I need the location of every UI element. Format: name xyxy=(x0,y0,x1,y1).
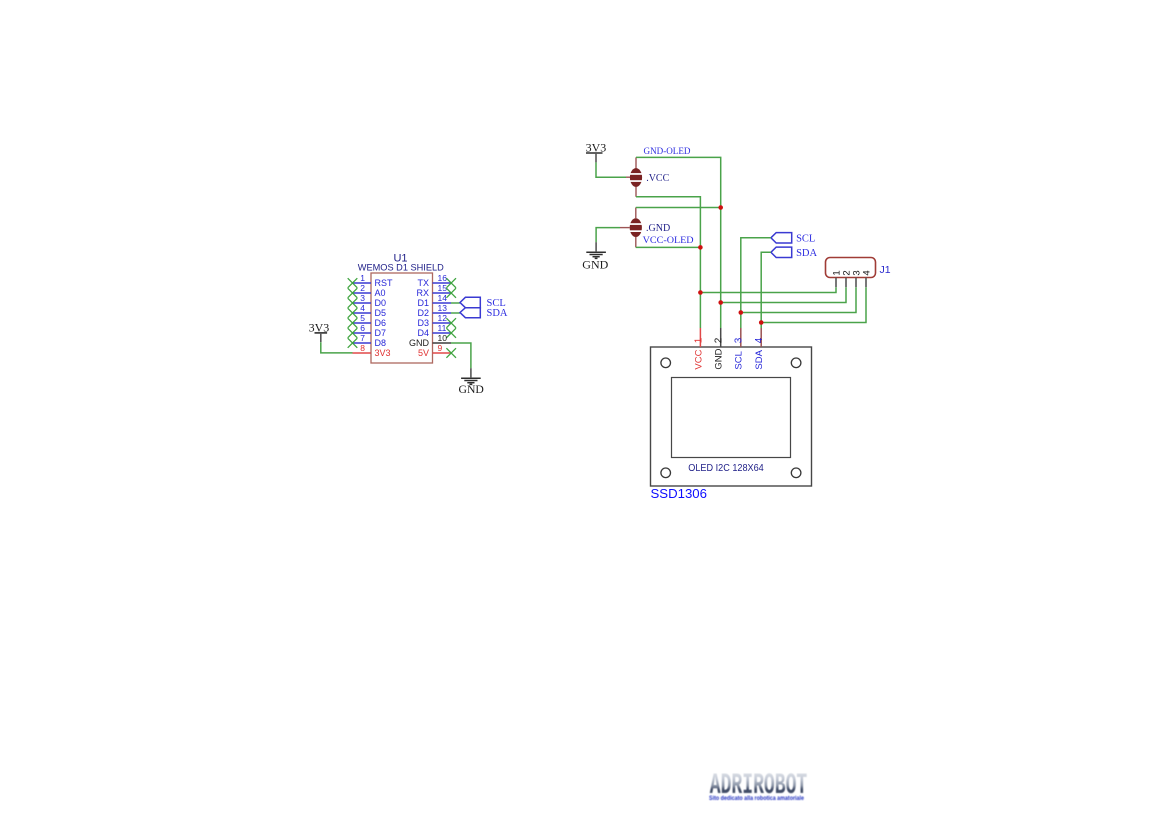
SSD1306 screen area xyxy=(672,378,791,458)
svg-text:D1: D1 xyxy=(417,298,429,308)
svg-text:5: 5 xyxy=(360,313,365,323)
wire FB1 bottom to VCC column xyxy=(636,197,700,328)
U1 pin 16 TX xyxy=(417,273,456,288)
svg-text:D4: D4 xyxy=(417,328,429,338)
svg-text:D3: D3 xyxy=(417,318,429,328)
svg-text:J1: J1 xyxy=(880,264,891,276)
U1 pin 8 3V3 xyxy=(353,343,391,358)
svg-text:5V: 5V xyxy=(418,348,429,358)
U1 pin 7 D8 xyxy=(348,333,386,348)
filter FB2 lead bottom xyxy=(635,237,637,247)
svg-text:12: 12 xyxy=(438,313,448,323)
mounting hole 2 xyxy=(791,358,801,368)
svg-text:1: 1 xyxy=(693,337,704,343)
U1 pin 9 5V xyxy=(418,343,456,358)
wire 3V3 to filter FB1 pin xyxy=(596,162,626,177)
wire J1 pin 1 to column xyxy=(700,287,836,292)
svg-text:D5: D5 xyxy=(375,308,387,318)
power symbol 3V3 (top) xyxy=(586,140,607,162)
svg-text:2: 2 xyxy=(714,337,725,343)
ground symbol GND (middle) xyxy=(586,242,606,258)
svg-text:D7: D7 xyxy=(375,328,387,338)
U1 pin 14 D1 xyxy=(417,293,451,308)
svg-text:11: 11 xyxy=(438,323,447,333)
mounting hole 4 xyxy=(791,468,801,478)
svg-text:4: 4 xyxy=(861,270,872,275)
SSD1306 pin 1 VCC xyxy=(693,328,704,370)
svg-text:WEMOS D1 SHIELD: WEMOS D1 SHIELD xyxy=(358,263,444,274)
svg-text:SSD1306: SSD1306 xyxy=(651,486,707,501)
svg-text:9: 9 xyxy=(438,343,443,353)
SSD1306 pin 2 GND xyxy=(714,328,725,370)
wire J1 pin 2 to column xyxy=(721,287,846,302)
global label SDA (top) xyxy=(771,247,818,259)
junction column 4 xyxy=(759,320,764,325)
U1 pin 4 D5 xyxy=(348,303,386,318)
svg-text:.VCC: .VCC xyxy=(646,173,669,184)
wire U1 pin 13 to SDA label xyxy=(451,312,460,314)
wire U1 pin 14 to SCL label xyxy=(451,302,460,304)
filter FB1 lead bottom xyxy=(635,187,637,197)
svg-text:SDA: SDA xyxy=(487,308,508,319)
svg-text:16: 16 xyxy=(438,273,448,283)
svg-text:4: 4 xyxy=(360,303,365,313)
logo ADRIROBOT xyxy=(710,768,808,802)
U1 pin 6 D7 xyxy=(348,323,386,338)
U1 pin 12 D3 xyxy=(417,313,456,328)
global label SCL (top) xyxy=(771,233,815,245)
U1 pin 5 D6 xyxy=(348,313,386,328)
wire 3V3 to U1 pin 8 xyxy=(321,342,353,353)
filter FB2 lead left xyxy=(620,227,630,229)
svg-text:SCL: SCL xyxy=(734,351,745,369)
wire FB2 top to GND-OLED column xyxy=(636,207,721,209)
U1 pin 2 A0 xyxy=(348,283,386,298)
wire SDA label to SDA column xyxy=(761,252,771,328)
svg-text:GND-OLED: GND-OLED xyxy=(644,146,691,156)
J1 pin 1 xyxy=(831,270,842,287)
svg-text:D8: D8 xyxy=(375,338,387,348)
J1 pin 3 xyxy=(851,270,862,287)
svg-text:13: 13 xyxy=(438,303,448,313)
svg-text:3V3: 3V3 xyxy=(375,348,391,358)
svg-text:2: 2 xyxy=(360,283,365,293)
svg-text:RX: RX xyxy=(416,288,429,298)
U1 pin 10 GND xyxy=(409,333,451,348)
svg-text:10: 10 xyxy=(438,333,448,343)
U1 pin 1 RST xyxy=(348,273,393,288)
svg-text:GND: GND xyxy=(409,338,430,348)
svg-text:GND: GND xyxy=(459,383,484,396)
svg-text:1: 1 xyxy=(360,273,365,283)
svg-text:6: 6 xyxy=(360,323,365,333)
svg-text:GND: GND xyxy=(714,348,725,369)
U1 pin 3 D0 xyxy=(348,293,386,308)
svg-text:D0: D0 xyxy=(375,298,387,308)
wire SCL label to SCL column xyxy=(741,238,771,328)
wire GND-OLED net xyxy=(636,157,721,328)
U1 pin 11 D4 xyxy=(417,323,456,338)
junction GND-OLED column xyxy=(718,205,723,210)
svg-text:SDA: SDA xyxy=(796,248,817,259)
svg-text:SCL: SCL xyxy=(796,234,815,245)
J1 pin 4 xyxy=(861,270,872,287)
display module SSD1306 body xyxy=(651,347,812,486)
svg-text:D6: D6 xyxy=(375,318,387,328)
wire VCC-OLED net xyxy=(636,246,701,248)
junction column 1 xyxy=(698,290,703,295)
mounting hole 3 xyxy=(661,468,671,478)
svg-text:4: 4 xyxy=(754,337,765,343)
logo tagline xyxy=(709,795,804,802)
wire U1 pin 10 GND to ground xyxy=(451,343,471,368)
svg-text:SDA: SDA xyxy=(754,349,765,369)
svg-text:Sito dedicato alla robotica am: Sito dedicato alla robotica amatoriale xyxy=(709,795,804,802)
power symbol 3V3 (left) xyxy=(309,321,330,343)
wire J1 pin 3 to column xyxy=(741,287,856,312)
global label SDA (at U1) xyxy=(460,308,508,319)
junction column 2 xyxy=(718,300,723,305)
svg-text:3: 3 xyxy=(734,337,745,343)
filter FB2 lead top xyxy=(635,208,637,219)
svg-text:D2: D2 xyxy=(417,308,429,318)
U1 pin 13 D2 xyxy=(417,303,451,318)
SSD1306 pin 3 SCL xyxy=(734,328,745,370)
filter FB1 lead top xyxy=(635,157,637,168)
svg-text:14: 14 xyxy=(438,293,448,303)
svg-text:VCC-OLED: VCC-OLED xyxy=(643,235,695,245)
mounting hole 1 xyxy=(661,358,671,368)
svg-text:.GND: .GND xyxy=(646,223,670,234)
svg-text:A0: A0 xyxy=(375,288,386,298)
connector J1 body xyxy=(826,258,876,278)
filter FB1 (VCC) body xyxy=(629,168,643,187)
ground symbol GND (below U1) xyxy=(461,368,481,384)
svg-text:8: 8 xyxy=(360,343,365,353)
SSD1306 pin 4 SDA xyxy=(754,328,765,370)
svg-text:VCC: VCC xyxy=(693,349,704,369)
junction column 3 xyxy=(739,310,744,315)
filter FB1 lead left xyxy=(626,176,630,178)
wire GND symbol to FB2 xyxy=(596,228,620,243)
svg-text:TX: TX xyxy=(417,278,429,288)
junction VCC column xyxy=(698,245,703,250)
wire J1 pin 4 to column xyxy=(761,287,866,322)
J1 pin 2 xyxy=(841,270,852,287)
svg-text:7: 7 xyxy=(360,333,365,343)
svg-text:GND: GND xyxy=(582,257,608,271)
svg-text:3: 3 xyxy=(360,293,365,303)
svg-text:15: 15 xyxy=(438,283,448,293)
svg-text:RST: RST xyxy=(375,278,394,288)
IC U1 WEMOS D1 SHIELD body xyxy=(371,273,433,363)
global label SCL (at U1) xyxy=(460,297,506,309)
svg-text:OLED I2C 128X64: OLED I2C 128X64 xyxy=(688,463,764,474)
U1 pin 15 RX xyxy=(416,283,456,298)
filter FB2 (GND) body xyxy=(629,218,643,237)
